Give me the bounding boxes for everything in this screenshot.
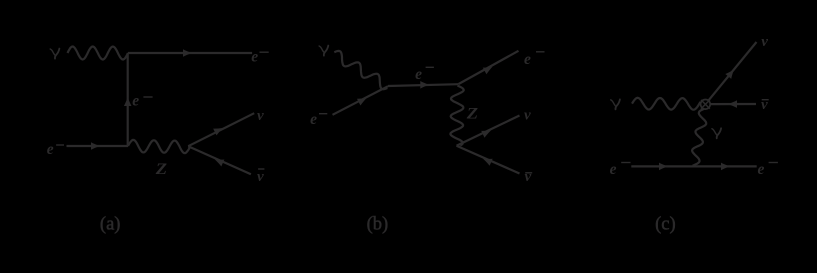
svg-text:ν: ν <box>257 108 264 124</box>
svg-text:(c): (c) <box>655 214 676 234</box>
svg-text:e: e <box>310 111 317 128</box>
svg-text:Z: Z <box>466 106 479 123</box>
svg-text:e: e <box>132 93 139 110</box>
svg-text:e: e <box>524 51 531 68</box>
svg-text:e: e <box>415 66 422 83</box>
svg-text:e: e <box>47 141 54 158</box>
svg-text:(b): (b) <box>367 214 389 234</box>
svg-text:Z: Z <box>155 161 168 178</box>
svg-text:e: e <box>758 161 765 178</box>
svg-text:ν: ν <box>524 107 531 123</box>
svg-text:ν: ν <box>525 169 532 185</box>
svg-text:ν: ν <box>257 169 264 185</box>
svg-text:e: e <box>251 49 258 66</box>
svg-text:e: e <box>610 161 617 178</box>
svg-text:ν: ν <box>761 34 768 50</box>
svg-text:(a): (a) <box>100 214 121 234</box>
